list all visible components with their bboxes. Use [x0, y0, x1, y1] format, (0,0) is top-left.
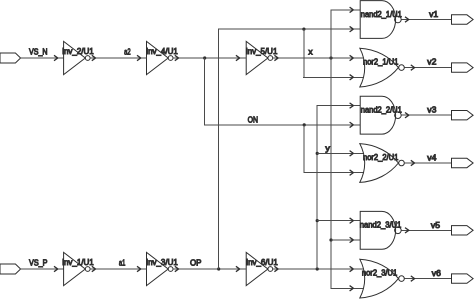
svg-text:inv_5/U1: inv_5/U1	[246, 46, 278, 56]
svg-text:inv_4/U1: inv_4/U1	[146, 46, 178, 56]
svg-text:v5: v5	[431, 220, 440, 230]
svg-text:v3: v3	[427, 105, 436, 115]
svg-text:v6: v6	[432, 268, 441, 278]
svg-text:VS_N: VS_N	[29, 47, 48, 57]
svg-text:nand2_2/U1: nand2_2/U1	[361, 104, 402, 114]
svg-text:v4: v4	[427, 152, 436, 162]
svg-text:inv_6/U1: inv_6/U1	[246, 257, 278, 267]
svg-text:nand2_1/U1: nand2_1/U1	[361, 9, 402, 19]
svg-text:a2: a2	[124, 46, 131, 56]
svg-text:ON: ON	[248, 114, 258, 124]
svg-text:nor2_3/U1: nor2_3/U1	[362, 268, 398, 278]
svg-text:nor2_2/U1: nor2_2/U1	[363, 152, 399, 162]
svg-text:inv_3/U1: inv_3/U1	[146, 257, 178, 267]
svg-text:nor2_1/U1: nor2_1/U1	[363, 56, 399, 66]
svg-text:inv_2/U1: inv_2/U1	[62, 46, 94, 56]
svg-text:VS_P: VS_P	[29, 258, 48, 268]
svg-text:inv_1/U1: inv_1/U1	[62, 257, 94, 267]
svg-text:nand2_3/U1: nand2_3/U1	[360, 220, 402, 230]
svg-text:v2: v2	[427, 57, 436, 67]
svg-text:OP: OP	[190, 257, 202, 267]
svg-text:v1: v1	[429, 9, 438, 19]
svg-text:x: x	[308, 47, 313, 57]
svg-text:a1: a1	[119, 257, 126, 267]
svg-text:y: y	[325, 143, 330, 153]
